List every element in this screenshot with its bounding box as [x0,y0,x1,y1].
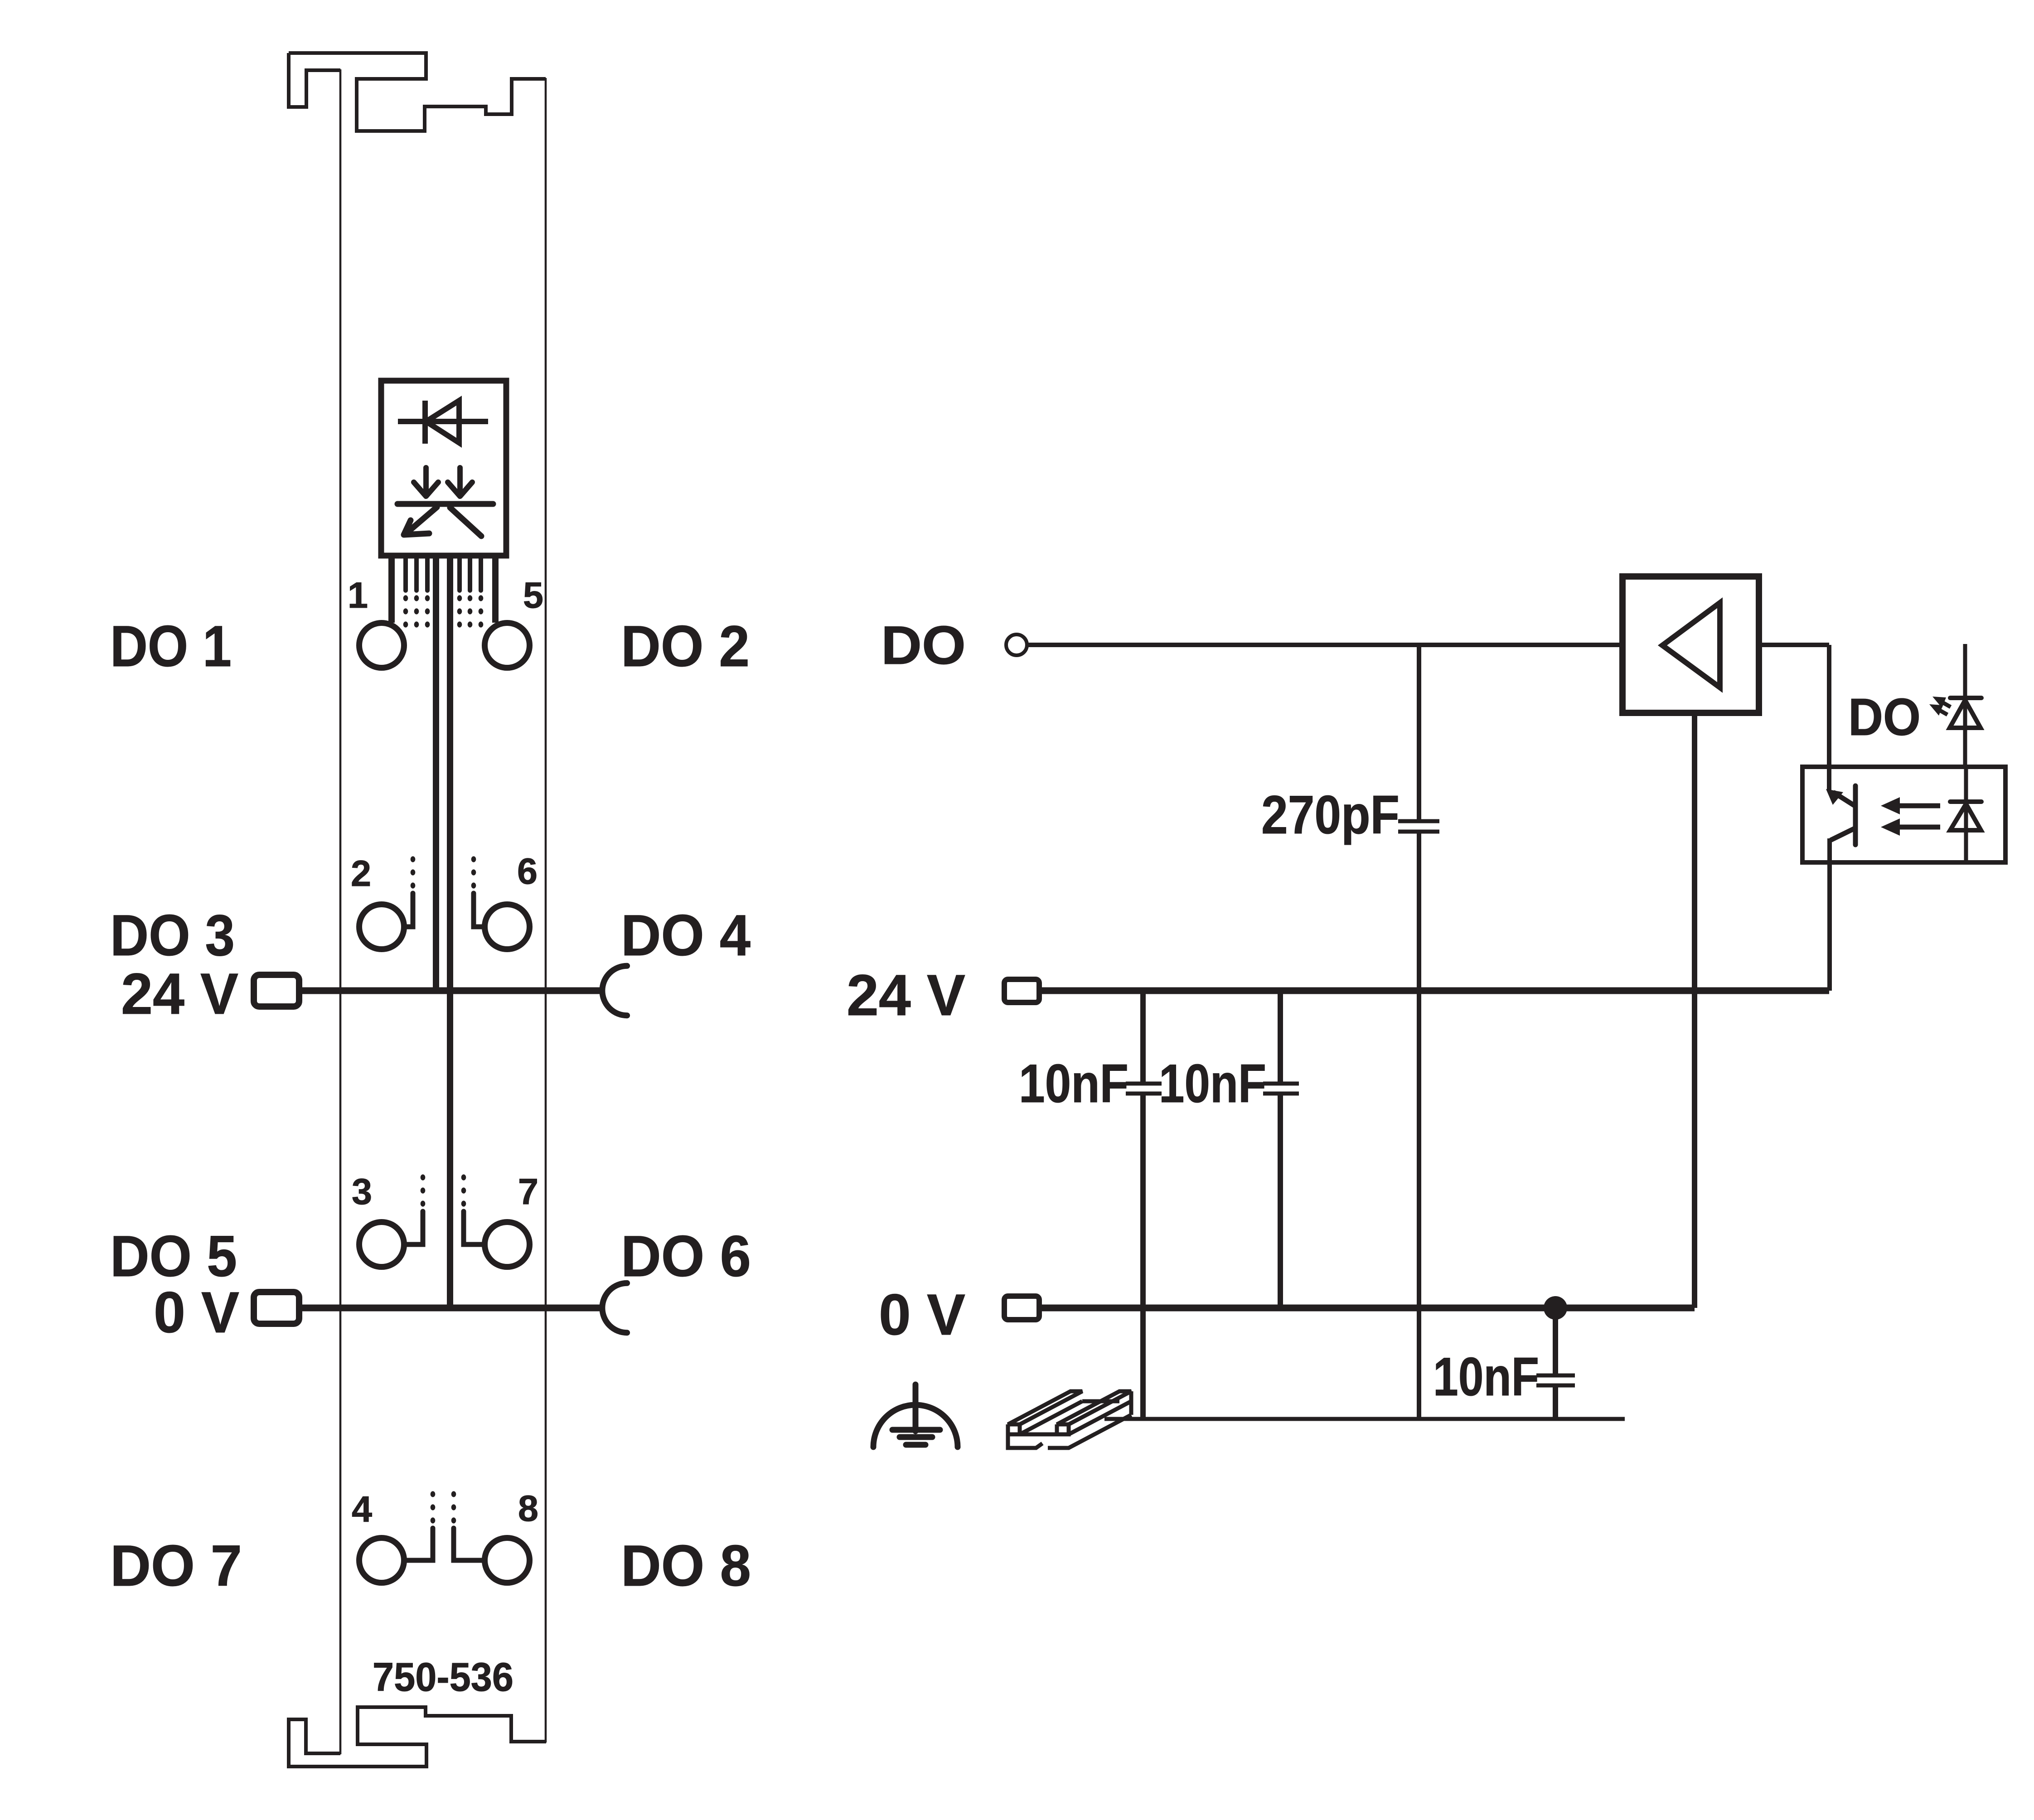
pin 6 stub wire [474,893,482,927]
opto LED cathode bar [1950,799,1981,804]
ground symbol bar 2 [900,1434,932,1440]
pin 1 drop line [388,556,395,623]
opto LED wire [1964,767,1968,862]
DO LED emission arrow 1 head [1932,697,1946,708]
24V terminal box left [254,975,299,1007]
TVS right down-arrow shaft [457,468,463,489]
DO terminal open circle [1006,634,1027,655]
DIN rail bottom front edge with notch [1048,1415,1131,1448]
pin 8 circle [485,1538,530,1583]
center line to 0V rail [447,556,453,1308]
pin 8 stub wire [454,1528,482,1560]
fan stub col4 [425,556,430,591]
pin 1 circle [359,623,404,668]
svg-text:DO 3: DO 3 [110,903,235,968]
DIN rail left ridge side lower edge [1020,1401,1082,1434]
ground bus [1104,1417,1625,1421]
svg-text:7: 7 [518,1171,538,1212]
DO 6 hook arc [602,1283,627,1332]
collector wire from amp output [1827,645,1831,791]
module right edge [545,78,547,1743]
TVS right down-arrow head [448,482,472,496]
svg-text:DO 4: DO 4 [621,903,751,968]
DO LED wire [1963,644,1967,767]
pin 2 circle [359,905,404,949]
wire amp bottom to 0V [1692,713,1697,1308]
pin 5 drop line [492,556,499,623]
fan stub col2 [403,556,408,591]
fan stub col3 [414,556,419,591]
DO LED emission arrow 1 shaft [1943,703,1951,707]
amplifier output wire [1759,643,1829,647]
transistor emitter diagonal [1831,828,1855,840]
svg-text:270pF: 270pF [1261,784,1400,845]
svg-text:5: 5 [523,575,543,616]
TVS left down-arrow shaft [423,468,429,489]
TVS left diagonal arrowhead [404,520,429,535]
module left edge [339,69,342,1754]
TVS left diagonal with arrow [409,507,437,531]
0V rail right [1039,1305,1695,1312]
DO LED emission arrow 2 shaft [1940,711,1947,715]
10nF cap3 plates [1536,1375,1575,1385]
DIN rail channel floor front edge [1020,1433,1057,1437]
diode D1 cathode bar [422,401,428,444]
pin 4 dotted column [431,1491,436,1523]
10nF cap3 wire lower [1553,1387,1558,1419]
10nF cap2 plates [1263,1084,1299,1094]
emitter wire down to 24V rail [1827,838,1832,991]
fan dot grid right [457,595,484,627]
10nF cap2 wire upper [1278,991,1283,1082]
0V rail left module [299,1305,600,1312]
light arrow 2 shaft [1897,825,1940,830]
module outline top profile [289,53,546,131]
light arrow 2 head [1881,818,1900,836]
svg-text:DO 6: DO 6 [621,1224,751,1289]
DIN rail right ridge top face [1057,1391,1131,1424]
fan stub col7 [468,556,472,591]
10nF cap3 wire upper [1553,1308,1558,1374]
10nF cap1 wire lower to ground bus [1140,1095,1146,1419]
DIN rail right ridge front face [1057,1424,1069,1434]
TVS left down-arrow head [414,482,438,496]
svg-text:6: 6 [517,851,538,892]
svg-text:8: 8 [518,1488,538,1529]
diode D1 inside block: horizontal line [398,419,488,424]
svg-text:3: 3 [352,1171,372,1212]
TVS right diagonal [450,508,481,536]
junction dot on 0V rail [1544,1296,1567,1320]
svg-text:4: 4 [352,1489,372,1530]
svg-text:DO 5: DO 5 [110,1224,237,1289]
pin 6 circle [485,905,530,949]
svg-text:750-536: 750-536 [373,1654,513,1699]
amplifier box U2 [1622,576,1759,713]
ground symbol bar 1 [892,1427,940,1433]
pin 3 dotted column [421,1174,426,1206]
pin 3 circle [359,1222,404,1267]
transistor bar [1853,786,1858,845]
pin 4 stub wire [407,1528,433,1560]
24V rail left module [299,987,600,994]
light arrow 1 shaft [1897,804,1940,808]
pin 6 dotted column [471,856,476,888]
DO LED triangle [1950,700,1981,728]
svg-text:DO: DO [881,615,966,676]
10nF cap1 plates [1126,1084,1162,1094]
center line to 24V rail [433,556,439,991]
transistor collector arrowhead [1826,789,1843,805]
svg-text:10nF: 10nF [1019,1053,1128,1114]
svg-text:24 V: 24 V [121,962,238,1026]
pin 7 stub wire [464,1211,482,1244]
svg-text:0 V: 0 V [154,1280,239,1345]
svg-text:DO 2: DO 2 [621,614,750,679]
svg-text:10nF: 10nF [1159,1053,1266,1114]
pin 7 circle [485,1222,530,1267]
pin 8 dotted column [451,1491,456,1523]
ground symbol dome arc [873,1405,958,1447]
DIN rail channel floor back edge [1082,1399,1119,1404]
svg-text:DO 8: DO 8 [621,1534,751,1598]
DIN rail 3D symbol [1008,1391,1131,1448]
270pF capacitor plates [1398,821,1439,832]
fan dot grid left [403,595,430,627]
svg-text:DO: DO [1848,687,1921,746]
module outline bottom profile [289,1707,546,1767]
pin 2 dotted column [411,856,416,888]
pin 3 stub wire [407,1211,423,1244]
svg-text:0 V: 0 V [879,1283,965,1347]
TVS suppressor bar [397,501,493,507]
optocoupler box U3 [1802,767,2005,862]
pin 7 dotted column [461,1174,466,1206]
svg-text:DO 1: DO 1 [110,614,232,679]
0V terminal box left [254,1292,299,1324]
svg-text:1: 1 [348,575,368,616]
opto LED triangle [1950,804,1981,830]
0V terminal box right [1004,1296,1039,1320]
svg-text:10nF: 10nF [1433,1346,1539,1407]
ground symbol bar 3 [906,1442,925,1448]
fan stub col8 [479,556,483,591]
DIN rail left ridge front face [1008,1424,1020,1434]
DIN rail left flange foot front [1008,1434,1042,1448]
24V terminal box right [1004,979,1039,1002]
transistor collector diagonal [1833,792,1855,806]
24V rail right [1039,987,1829,994]
10nF cap1 wire upper [1140,991,1146,1082]
fan stub col6 [457,556,462,591]
pin 4 circle [359,1538,404,1583]
pin 2 stub wire [407,893,413,927]
amplifier triangle [1662,603,1720,687]
10nF cap2 wire lower to 0V [1278,1095,1283,1308]
svg-text:24 V: 24 V [847,963,965,1028]
DO LED cathode bar [1950,696,1981,700]
svg-text:DO 7: DO 7 [110,1534,242,1598]
DIN rail right outer end [1129,1391,1133,1415]
module outline top-left tab [289,53,340,107]
electronics block box U1 [381,381,506,556]
svg-text:2: 2 [351,853,371,894]
270pF branch lower wire to ground bus [1417,833,1421,1419]
diode D1 triangle [426,401,459,443]
pin 5 circle [485,623,530,668]
DO LED emission arrow 2 head [1929,704,1943,716]
DIN rail left ridge top face [1008,1391,1082,1424]
light arrow 1 head [1881,797,1900,814]
ground symbol stem [913,1384,919,1431]
DIN rail right ridge side lower edge [1069,1401,1131,1434]
DO wire to amplifier [1027,643,1622,647]
DO 4 hook arc [602,966,627,1015]
270pF branch upper wire [1417,645,1421,819]
